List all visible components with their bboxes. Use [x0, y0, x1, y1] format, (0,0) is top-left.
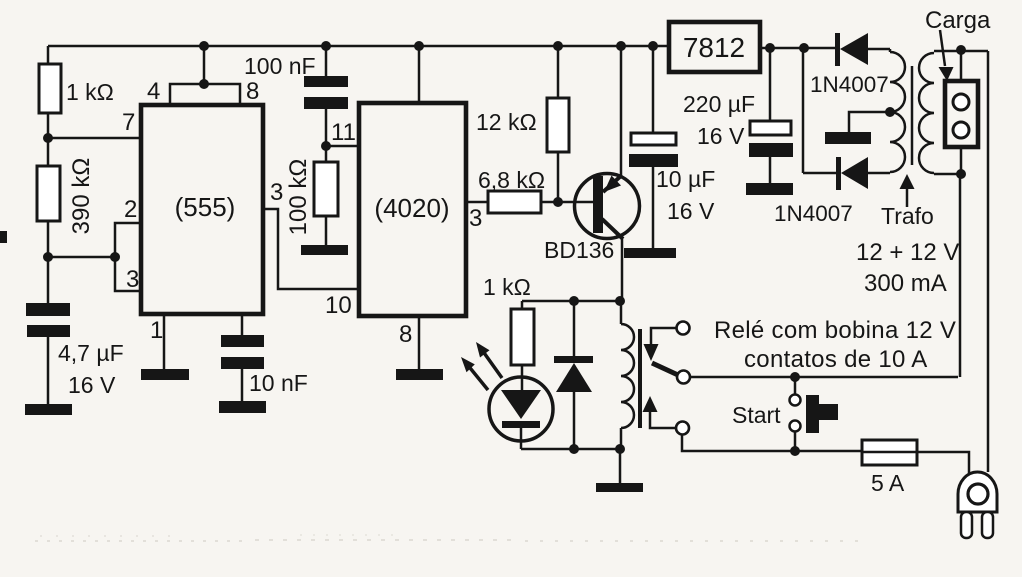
svg-text:1N4007: 1N4007 — [774, 201, 853, 226]
svg-text:(4020): (4020) — [374, 193, 449, 223]
svg-text:1N4007: 1N4007 — [810, 72, 889, 97]
svg-text:3: 3 — [126, 266, 139, 293]
svg-text:8: 8 — [246, 78, 259, 105]
svg-text:3: 3 — [469, 205, 482, 232]
svg-text:Carga: Carga — [925, 7, 991, 34]
svg-text:Trafo: Trafo — [881, 203, 934, 229]
svg-text:10: 10 — [325, 292, 352, 319]
svg-text:contatos de 10 A: contatos de 10 A — [744, 346, 928, 373]
svg-text:12 kΩ: 12 kΩ — [476, 109, 537, 135]
svg-text:300 mA: 300 mA — [864, 270, 947, 297]
svg-text:2: 2 — [124, 196, 137, 223]
svg-text:1 kΩ: 1 kΩ — [483, 274, 531, 300]
svg-text:10 µF: 10 µF — [656, 166, 715, 192]
svg-text:3: 3 — [270, 179, 283, 206]
svg-text:Relé com bobina 12 V: Relé com bobina 12 V — [714, 317, 956, 344]
svg-text:220 µF: 220 µF — [683, 91, 755, 117]
svg-text:16 V: 16 V — [68, 372, 116, 398]
svg-text:BD136: BD136 — [544, 237, 614, 263]
svg-text:390 kΩ: 390 kΩ — [68, 158, 95, 235]
svg-text:Start: Start — [732, 402, 781, 428]
svg-text:16 V: 16 V — [667, 198, 715, 224]
svg-text:1: 1 — [150, 317, 163, 344]
svg-text:5 A: 5 A — [871, 470, 905, 496]
svg-text:16 V: 16 V — [697, 123, 745, 149]
svg-text:11: 11 — [331, 119, 356, 146]
svg-text:1 kΩ: 1 kΩ — [66, 79, 114, 105]
svg-text:100 nF: 100 nF — [244, 53, 316, 79]
svg-text:7812: 7812 — [683, 32, 745, 63]
svg-text:8: 8 — [399, 321, 412, 348]
svg-text:6,8 kΩ: 6,8 kΩ — [478, 167, 545, 193]
svg-text:(555): (555) — [175, 192, 236, 222]
svg-text:12 + 12 V: 12 + 12 V — [856, 239, 959, 266]
svg-text:4: 4 — [147, 78, 160, 105]
svg-text:7: 7 — [122, 109, 135, 136]
svg-text:100 kΩ: 100 kΩ — [285, 159, 312, 236]
svg-text:4,7 µF: 4,7 µF — [58, 340, 124, 366]
svg-text:10 nF: 10 nF — [249, 370, 308, 396]
